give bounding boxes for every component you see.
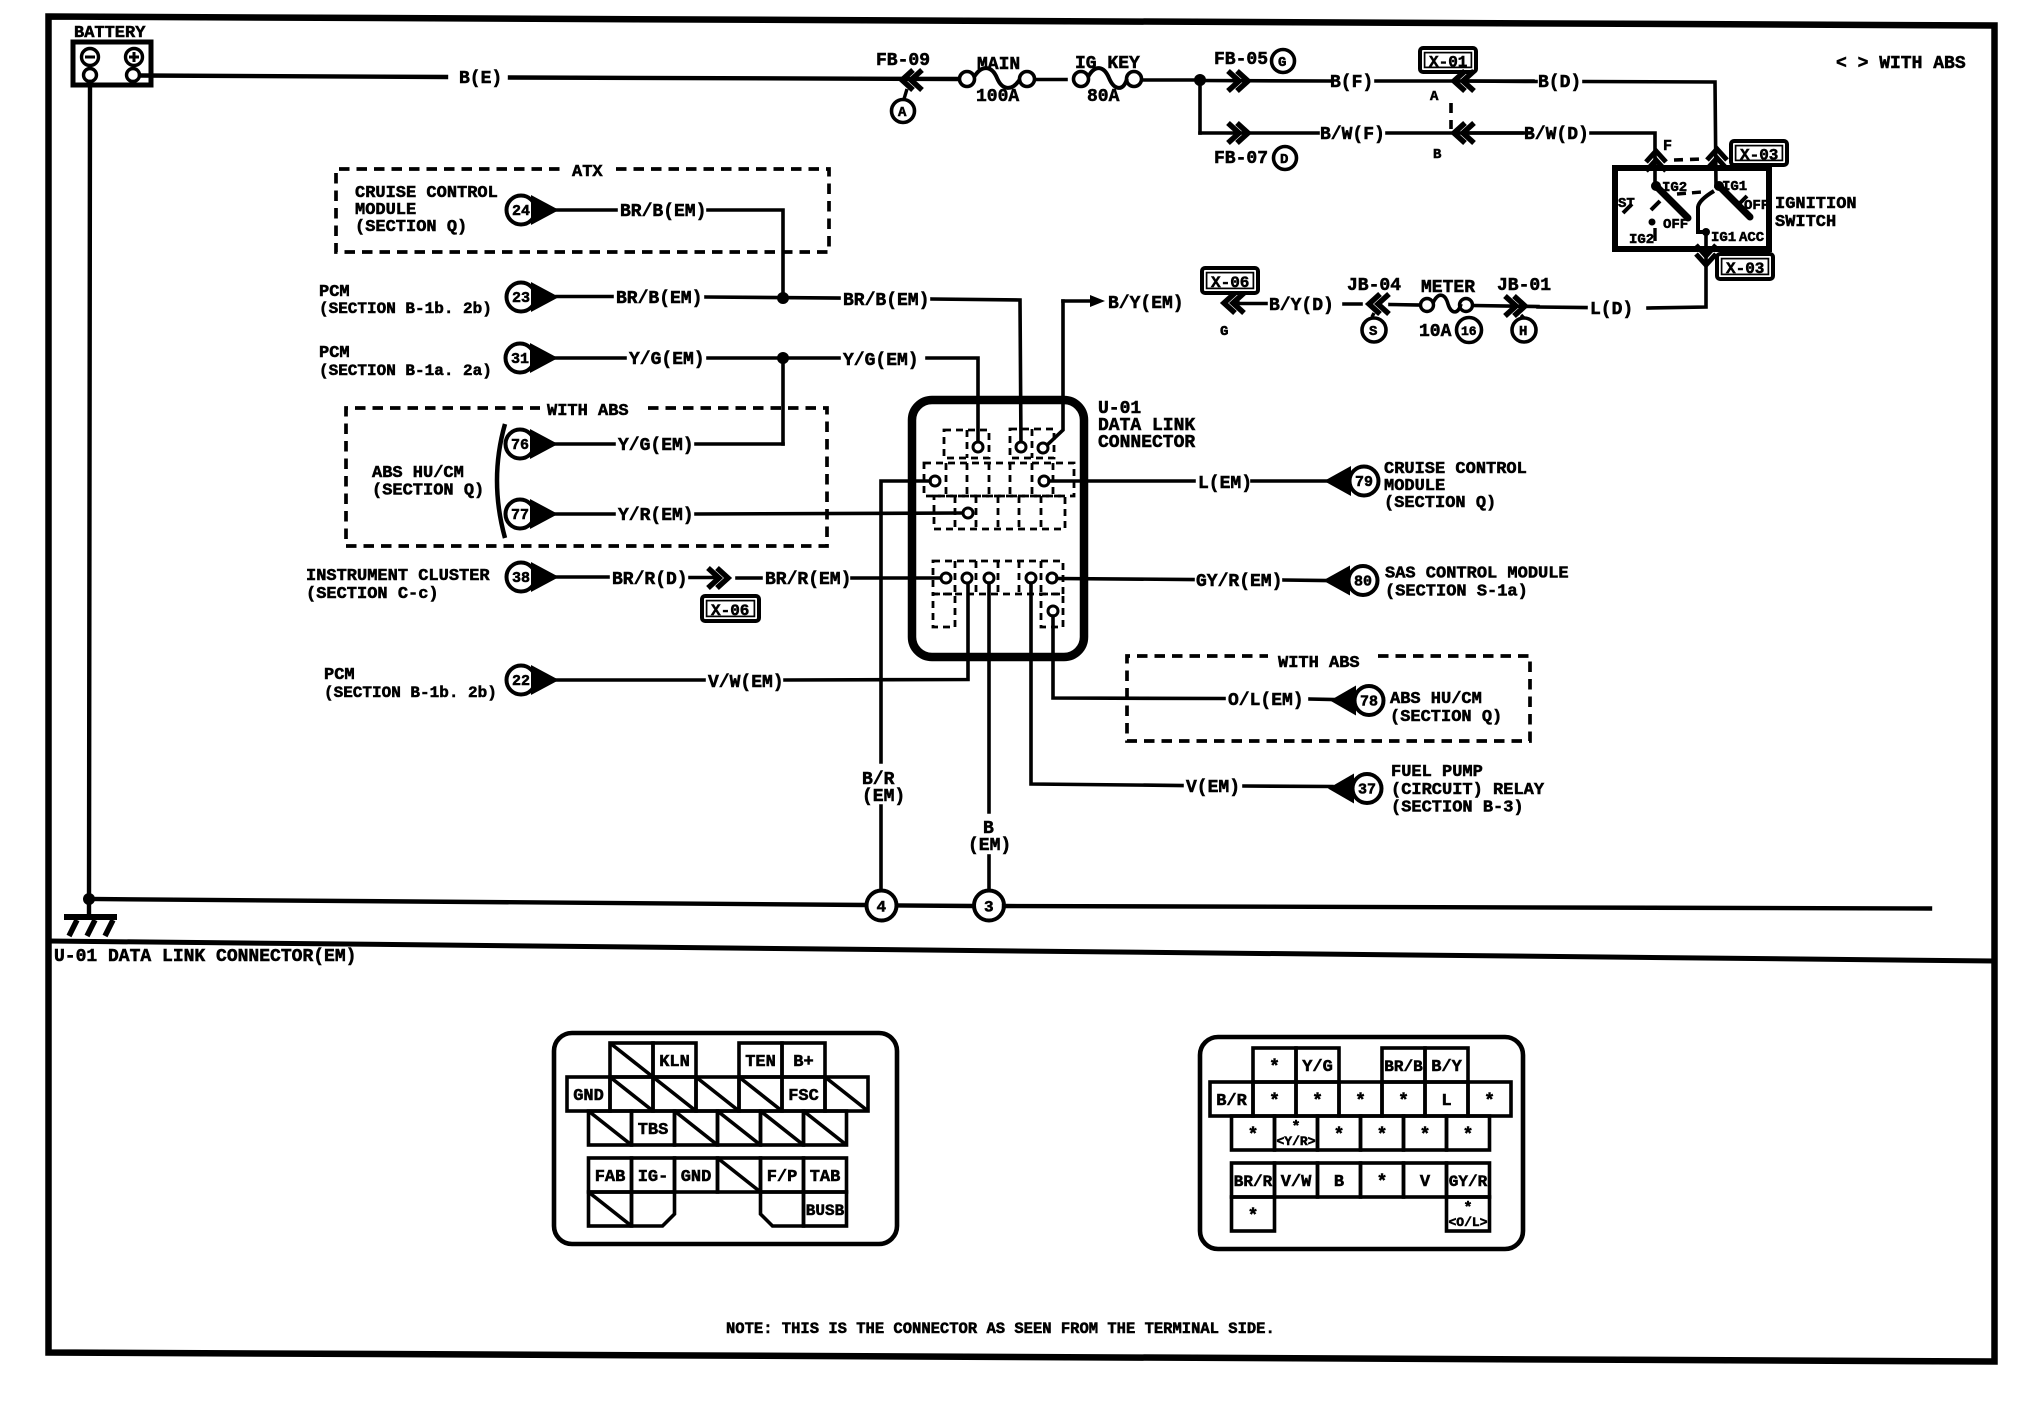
wire B(E) battery feed xyxy=(140,69,959,89)
wire branch down xyxy=(1198,80,1202,133)
svg-text:37: 37 xyxy=(1358,782,1376,799)
svg-text:(SECTION Q): (SECTION Q) xyxy=(1390,708,1502,727)
svg-text:(SECTION B-1b. 2b): (SECTION B-1b. 2b) xyxy=(324,684,497,702)
svg-text:*: * xyxy=(1398,1092,1409,1112)
svg-text:X-03: X-03 xyxy=(1740,147,1778,165)
svg-text:GND: GND xyxy=(681,1168,712,1187)
svg-text:BR/B(EM): BR/B(EM) xyxy=(620,202,706,222)
svg-text:<O/L>: <O/L> xyxy=(1448,1215,1487,1230)
svg-text:OFF: OFF xyxy=(1663,217,1688,233)
svg-text:B/Y(D): B/Y(D) xyxy=(1269,296,1334,316)
DLC pin L middle right xyxy=(1039,476,1049,486)
svg-text:38: 38 xyxy=(512,570,530,587)
label circled 3 xyxy=(974,891,1004,921)
svg-text:JB-01: JB-01 xyxy=(1497,276,1551,296)
svg-text:23: 23 xyxy=(512,290,530,307)
ground bus wire xyxy=(89,899,1930,909)
svg-text:KLN: KLN xyxy=(659,1053,690,1072)
svg-text:(SECTION S-1a): (SECTION S-1a) xyxy=(1385,583,1528,602)
battery xyxy=(73,24,151,85)
svg-text:ABS HU/CM: ABS HU/CM xyxy=(372,464,464,483)
wire BR/R(D) xyxy=(557,570,716,590)
svg-text:(EM): (EM) xyxy=(862,787,905,807)
svg-text:BR/B: BR/B xyxy=(1384,1058,1423,1076)
wire label B/W(D) xyxy=(1464,125,1672,186)
svg-text:H: H xyxy=(1519,324,1527,340)
svg-text:V/W(EM): V/W(EM) xyxy=(708,673,784,693)
svg-text:L: L xyxy=(1441,1092,1451,1111)
DLC dashed pin band middle xyxy=(924,463,1074,496)
DLC pin O/L lower xyxy=(1048,606,1058,616)
fuel pump relay pin 37 xyxy=(1328,763,1545,818)
DLC dashed pin band middle second xyxy=(934,496,1065,529)
svg-text:3: 3 xyxy=(984,899,994,917)
node junction row31 xyxy=(777,352,789,364)
wire B/R(EM) from pin to drop xyxy=(862,481,930,891)
wire V(EM) to fuel pump relay xyxy=(1031,583,1332,798)
cruise control module pin 79 xyxy=(1324,460,1527,513)
svg-text:24: 24 xyxy=(512,203,530,220)
svg-text:*: * xyxy=(1377,1173,1388,1193)
svg-text:(SECTION B-1a. 2a): (SECTION B-1a. 2a) xyxy=(319,362,492,380)
svg-text:CONNECTOR: CONNECTOR xyxy=(1098,433,1195,453)
svg-text:*: * xyxy=(1269,1092,1280,1112)
left box row3 cells xyxy=(589,1158,847,1192)
svg-text:GY/R(EM): GY/R(EM) xyxy=(1196,572,1282,592)
svg-text:(SECTION Q): (SECTION Q) xyxy=(355,218,467,237)
svg-text:A: A xyxy=(898,105,907,121)
svg-text:B/Y: B/Y xyxy=(1431,1058,1462,1077)
svg-text:*: * xyxy=(1377,1126,1388,1146)
svg-text:(CIRCUIT) RELAY: (CIRCUIT) RELAY xyxy=(1391,781,1545,800)
svg-text:IGNITION: IGNITION xyxy=(1775,195,1857,214)
svg-text:*: * xyxy=(1420,1126,1431,1146)
svg-text:V(EM): V(EM) xyxy=(1186,778,1240,798)
svg-text:IG-: IG- xyxy=(638,1168,669,1187)
wire Y/G(EM) row 31 xyxy=(556,350,978,447)
wire label L(D) xyxy=(1538,300,1633,320)
svg-text:(SECTION B-3): (SECTION B-3) xyxy=(1391,799,1524,818)
ABS HU/CM module pin 78 xyxy=(1330,686,1502,728)
svg-text:B+: B+ xyxy=(793,1053,813,1072)
ABS pin 77 xyxy=(506,499,559,529)
wire BR/B(EM) row 24 xyxy=(557,202,783,297)
svg-text:FAB: FAB xyxy=(595,1168,626,1187)
connector JB-01 xyxy=(1474,276,1551,342)
svg-text:B/W(D): B/W(D) xyxy=(1524,125,1589,145)
svg-text:B/Y(EM): B/Y(EM) xyxy=(1108,294,1184,314)
DLC dashed pin cells top right xyxy=(1010,429,1054,458)
svg-text:B/W(F): B/W(F) xyxy=(1320,125,1385,145)
DLC dashed pin cells lower second xyxy=(933,594,1063,627)
connector FB-05 xyxy=(1200,50,1330,92)
DLC pin V lower xyxy=(1026,573,1036,583)
wire O/L(EM) to ABS module xyxy=(1053,616,1333,711)
svg-text:80A: 80A xyxy=(1087,87,1120,107)
svg-text:B/R: B/R xyxy=(1216,1092,1247,1111)
svg-text:NOTE: THIS IS THE CONNECTOR AS: NOTE: THIS IS THE CONNECTOR AS SEEN FROM… xyxy=(726,1320,1275,1338)
connector X-03 lower xyxy=(1648,232,1773,308)
svg-text:V: V xyxy=(1420,1173,1431,1192)
wire Y/R(EM) row 77 to DLC xyxy=(556,506,963,526)
wire junction drop to row 76 xyxy=(781,358,785,444)
connector X-03 upper xyxy=(1646,141,1787,171)
node junction row23 xyxy=(777,292,789,304)
svg-text:Y/G(EM): Y/G(EM) xyxy=(629,350,705,370)
svg-text:78: 78 xyxy=(1360,694,1378,711)
svg-text:F/P: F/P xyxy=(767,1168,798,1187)
ATX dashed option box xyxy=(336,163,829,252)
svg-text:FB-07: FB-07 xyxy=(1214,149,1268,169)
wire label B(D) xyxy=(1464,73,1716,186)
cruise control module pin 24 xyxy=(355,184,559,237)
svg-text:BR/R: BR/R xyxy=(1234,1173,1273,1191)
svg-text:SAS CONTROL MODULE: SAS CONTROL MODULE xyxy=(1385,565,1569,584)
svg-text:100A: 100A xyxy=(976,87,1019,107)
svg-text:FSC: FSC xyxy=(788,1087,819,1106)
svg-text:10A: 10A xyxy=(1419,322,1452,342)
svg-text:X-03: X-03 xyxy=(1726,260,1764,278)
svg-text:<Y/R>: <Y/R> xyxy=(1276,1134,1315,1149)
svg-text:Y/G(EM): Y/G(EM) xyxy=(618,436,694,456)
fuse IG KEY 80A xyxy=(1074,54,1142,107)
section divider xyxy=(49,941,1995,961)
svg-text:Y/G(EM): Y/G(EM) xyxy=(843,351,919,371)
connector X-06 row 38 xyxy=(702,568,759,621)
svg-text:B(F): B(F) xyxy=(1330,73,1373,93)
SAS control module pin 80 xyxy=(1323,565,1569,602)
svg-text:WITH ABS: WITH ABS xyxy=(1278,654,1360,673)
wire V/W(EM) row 22 xyxy=(557,583,968,693)
svg-text:4: 4 xyxy=(877,899,887,917)
DLC pin BR/R lower xyxy=(941,573,951,583)
svg-text:*: * xyxy=(1312,1092,1323,1112)
wire B/Y vertical to DLC pin xyxy=(1044,301,1063,448)
DLC pin TEN top xyxy=(1038,443,1048,453)
wire label B/W(F) xyxy=(1320,125,1530,145)
DLC pin B+ top xyxy=(1016,442,1026,452)
wire label B(F) xyxy=(1330,73,1533,93)
connector X-06 meter row xyxy=(1202,268,1258,340)
ABS HU/CM module label xyxy=(372,424,505,538)
svg-text:*: * xyxy=(1484,1092,1495,1112)
DLC pin V/W lower xyxy=(962,573,972,583)
ground xyxy=(64,899,117,936)
svg-text:B(E): B(E) xyxy=(459,69,502,89)
svg-text:F: F xyxy=(1663,138,1672,155)
connector JB-04 xyxy=(1344,276,1401,342)
right box row0 cells xyxy=(1253,1048,1468,1082)
svg-text:22: 22 xyxy=(512,673,530,690)
svg-text:PCM: PCM xyxy=(319,344,350,363)
right box row3 cells xyxy=(1232,1163,1490,1197)
svg-text:METER: METER xyxy=(1421,278,1475,298)
svg-text:BR/B(EM): BR/B(EM) xyxy=(616,289,702,309)
svg-text:SWITCH: SWITCH xyxy=(1775,213,1836,232)
PCM pin 31 xyxy=(319,343,558,380)
svg-text:V/W: V/W xyxy=(1281,1173,1312,1192)
terminal-view connector left body xyxy=(554,1033,897,1244)
svg-text:X-01: X-01 xyxy=(1429,54,1467,72)
svg-text:TBS: TBS xyxy=(638,1121,669,1140)
svg-text:16: 16 xyxy=(1461,324,1477,339)
connector FB-07 xyxy=(1200,123,1318,170)
svg-text:(SECTION C-c): (SECTION C-c) xyxy=(306,585,439,604)
fuse MAIN 100A xyxy=(960,55,1035,107)
svg-text:(SECTION B-1b. 2b): (SECTION B-1b. 2b) xyxy=(319,300,492,318)
svg-text:X-06: X-06 xyxy=(711,602,749,620)
wire label B/Y(D) xyxy=(1240,296,1334,316)
terminal-view connector right body xyxy=(1200,1037,1523,1249)
svg-text:*: * xyxy=(1248,1207,1259,1227)
connector X-01 xyxy=(1420,48,1476,163)
svg-text:TAB: TAB xyxy=(810,1168,841,1187)
ABS pin 76 xyxy=(506,429,559,459)
svg-text:G: G xyxy=(1220,324,1228,340)
svg-text:(SECTION Q): (SECTION Q) xyxy=(1384,494,1496,513)
right box row2 cells xyxy=(1232,1116,1490,1150)
left box row1 cells xyxy=(567,1077,868,1111)
DLC dashed pin cells top left xyxy=(944,430,989,458)
svg-text:FUEL PUMP: FUEL PUMP xyxy=(1391,763,1483,782)
svg-text:79: 79 xyxy=(1355,474,1373,491)
svg-text:BR/B(EM): BR/B(EM) xyxy=(843,291,929,311)
wire label B/Y(EM) xyxy=(1063,294,1184,314)
svg-text:FB-05: FB-05 xyxy=(1214,50,1268,70)
label circled 4 xyxy=(867,891,897,921)
PCM pin 22 xyxy=(324,665,559,702)
svg-text:ATX: ATX xyxy=(572,163,603,182)
svg-text:TEN: TEN xyxy=(745,1053,776,1072)
svg-text:D: D xyxy=(1280,152,1288,168)
WITH ABS dashed option box right xyxy=(1127,654,1530,741)
svg-text:B: B xyxy=(1433,147,1442,163)
wire BR/R(EM) to DLC xyxy=(737,570,941,590)
svg-text:*: * xyxy=(1463,1126,1474,1146)
svg-text:O/L(EM): O/L(EM) xyxy=(1228,691,1304,711)
wire B(EM) from pin to drop xyxy=(968,583,1011,891)
wire Y/G(EM) row 76 xyxy=(556,436,783,456)
node main junction xyxy=(1194,74,1206,86)
svg-text:(SECTION Q): (SECTION Q) xyxy=(372,482,484,501)
svg-text:INSTRUMENT CLUSTER: INSTRUMENT CLUSTER xyxy=(306,567,490,586)
svg-text:X-06: X-06 xyxy=(1211,274,1249,292)
svg-text:*: * xyxy=(1269,1058,1280,1078)
wire BR/B(EM) row 23 xyxy=(557,289,1021,447)
svg-text:80: 80 xyxy=(1354,574,1372,591)
svg-text:BR/R(EM): BR/R(EM) xyxy=(765,570,851,590)
right box row1 cells xyxy=(1210,1082,1511,1116)
WITH ABS dashed option box left xyxy=(346,402,827,546)
wire L(EM) to cruise module xyxy=(1049,474,1327,494)
U-01 data link connector body xyxy=(912,399,1195,657)
wire fuse link xyxy=(1035,78,1066,82)
svg-text:PCM: PCM xyxy=(324,666,355,685)
left box row2 cells xyxy=(589,1111,847,1145)
svg-text:MAIN: MAIN xyxy=(977,55,1020,75)
svg-text:S: S xyxy=(1369,324,1377,340)
PCM pin 23 xyxy=(319,282,559,318)
instrument cluster pin 38 xyxy=(306,562,559,604)
svg-text:(EM): (EM) xyxy=(968,836,1011,856)
wire GY/R(EM) to SAS module xyxy=(1057,572,1326,592)
DLC pin B lower xyxy=(984,573,994,583)
svg-text:B(D): B(D) xyxy=(1538,73,1581,93)
svg-text:31: 31 xyxy=(511,351,529,368)
svg-text:L(EM): L(EM) xyxy=(1198,474,1252,494)
wire to junction xyxy=(1142,78,1200,82)
wire battery ground drop xyxy=(89,82,90,899)
svg-text:76: 76 xyxy=(511,437,529,454)
svg-text:WITH ABS: WITH ABS xyxy=(547,402,629,421)
left box row4 cells xyxy=(589,1192,847,1226)
svg-text:U-01 DATA LINK CONNECTOR(EM): U-01 DATA LINK CONNECTOR(EM) xyxy=(54,947,356,967)
svg-text:L(D): L(D) xyxy=(1590,300,1633,320)
svg-text:BR/R(D): BR/R(D) xyxy=(612,570,688,590)
svg-text:IG1: IG1 xyxy=(1711,230,1736,246)
DLC dashed pin band lower xyxy=(933,561,1063,594)
svg-text:*: * xyxy=(1248,1126,1259,1146)
svg-text:B: B xyxy=(1334,1173,1344,1192)
svg-text:A: A xyxy=(1430,89,1439,105)
svg-text:*: * xyxy=(1334,1126,1345,1146)
svg-text:G: G xyxy=(1278,55,1286,71)
svg-text:JB-04: JB-04 xyxy=(1347,276,1401,296)
svg-text:OFF: OFF xyxy=(1744,198,1769,214)
svg-text:Y/G: Y/G xyxy=(1302,1058,1333,1077)
svg-text:BUSB: BUSB xyxy=(806,1202,845,1220)
svg-text:IG2: IG2 xyxy=(1629,232,1654,248)
right box row4 cells xyxy=(1232,1197,1490,1231)
DLC pin B/R middle left xyxy=(930,476,940,486)
ignition switch U xyxy=(1615,168,1857,249)
svg-text:77: 77 xyxy=(511,507,529,524)
svg-text:ABS HU/CM: ABS HU/CM xyxy=(1390,690,1482,709)
svg-text:GND: GND xyxy=(573,1087,604,1106)
fuse METER 10A xyxy=(1390,278,1482,343)
DLC pin GY/R lower xyxy=(1047,573,1057,583)
svg-text:Y/R(EM): Y/R(EM) xyxy=(618,506,694,526)
node ground junction xyxy=(83,893,95,905)
svg-text:*: * xyxy=(1355,1092,1366,1112)
svg-text:< > WITH ABS: < > WITH ABS xyxy=(1836,54,1966,74)
svg-text:FB-09: FB-09 xyxy=(876,51,930,71)
connector FB-09 xyxy=(876,51,930,123)
left box row0 cells xyxy=(610,1043,825,1077)
svg-text:GY/R: GY/R xyxy=(1449,1173,1488,1191)
DLC pin KLN top xyxy=(973,442,983,452)
svg-text:ACC: ACC xyxy=(1739,230,1765,246)
DLC pin Y/R xyxy=(963,508,973,518)
